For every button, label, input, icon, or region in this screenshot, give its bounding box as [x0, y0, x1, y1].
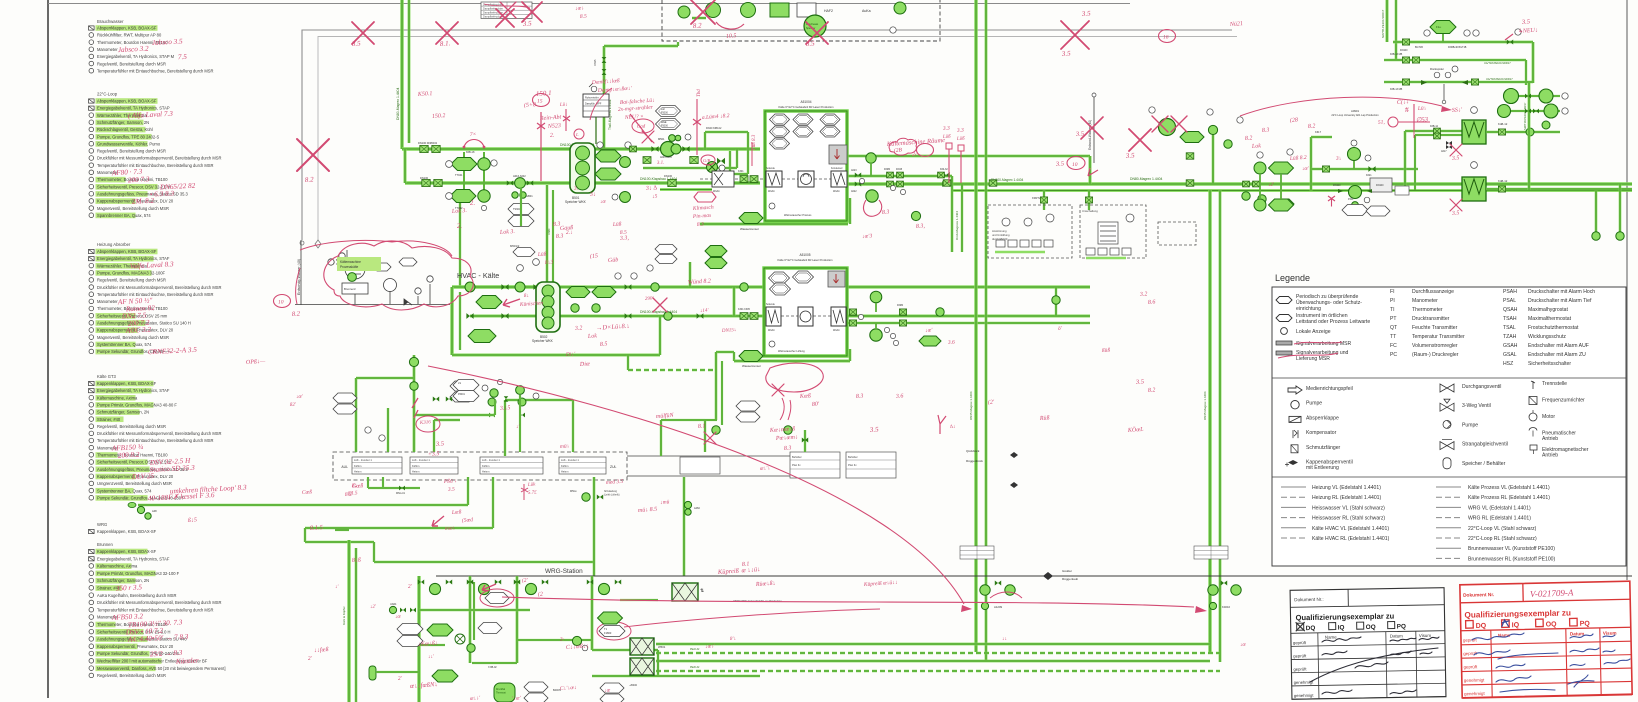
svg-text:Solende: Solende — [766, 167, 775, 170]
svg-text:3.5: 3.5 — [1125, 151, 1136, 160]
pump hexagons TT041/TT042 — [463, 152, 465, 196]
bottom return runs (4 lines) — [656, 643, 1210, 646]
pump P501 on header2 — [515, 178, 526, 189]
svg-text:200 8.2: 200 8.2 — [118, 451, 140, 460]
svg-text:QT: QT — [1390, 325, 1397, 331]
WRG station symbols — [429, 583, 440, 594]
valve boxes on headers — [420, 145, 428, 152]
svg-text:Dokument Nr.: Dokument Nr. — [1463, 592, 1494, 599]
svg-text:Lü↓: Lü↓ — [1417, 105, 1427, 112]
svg-text:8.3: 8.3 — [697, 222, 705, 228]
svg-text:PE22-32: PE22-32 — [690, 648, 700, 651]
pumps on HVAC line — [476, 296, 502, 309]
svg-text:Druckschalter mit Alarm Hoch: Druckschalter mit Alarm Hoch — [1528, 289, 1595, 295]
svg-text:15: 15 — [537, 98, 543, 104]
svg-text:2.: 2. — [550, 133, 555, 139]
svg-text:Speicher WKK: Speicher WKK — [565, 200, 587, 204]
svg-text:NW/TB-PE100-SDR17: NW/TB-PE100-SDR17 — [1381, 9, 1385, 38]
svg-text:3.1.: 3.1. — [657, 160, 665, 166]
red markup crosses — [352, 22, 374, 44]
svg-text:Temperaturfühler mit Eintauchb: Temperaturfühler mit Eintauchbuchse, Ber… — [97, 163, 214, 168]
svg-text:Name: Name — [1325, 635, 1337, 640]
svg-text:3.5: 3.5 — [1081, 9, 1092, 18]
svg-text:DN100: DN100 — [1376, 184, 1384, 187]
svg-text:Diœ: Diœ — [579, 361, 590, 368]
svg-text:3.3: 3.3 — [956, 128, 965, 135]
right edge pipes — [1595, 191, 1598, 241]
svg-text:Tbd: Tbd — [697, 89, 702, 97]
svg-text:Dampfbefeuchter: Dampfbefeuchter — [483, 6, 503, 10]
svg-text:↓œ′: ↓œ′ — [1302, 166, 1310, 172]
svg-text:200 7.3: 200 7.3 — [128, 175, 150, 184]
svg-text:BGT1B: BGT1B — [1415, 46, 1423, 49]
svg-text:↓œ↓′: ↓œ↓′ — [705, 643, 717, 650]
bottom WRG cluster pipes — [417, 576, 420, 702]
svg-text:8↓ß: 8↓ß — [352, 556, 361, 564]
WRG station header line — [436, 575, 1632, 577]
svg-text:WüA4: WüA4 — [713, 190, 720, 193]
svg-text:A48: A48 — [152, 509, 157, 513]
svg-text:Antrieb: Antrieb — [1542, 436, 1558, 442]
svg-text:Heisswasser RL (Stahl schwarz): Heisswasser RL (Stahl schwarz) — [1312, 516, 1385, 522]
svg-text:UA/T18-PE100-SDR17: UA/T18-PE100-SDR17 — [1484, 61, 1511, 65]
svg-text:DN100 DN80/32: DN100 DN80/32 — [418, 141, 438, 145]
svg-text:AuKa: AuKa — [862, 9, 871, 13]
svg-text:(28: (28 — [1290, 116, 1298, 124]
svg-text:DN100-Magrex 1.4404: DN100-Magrex 1.4404 — [991, 178, 1023, 182]
svg-text:Visum: Visum — [1419, 633, 1432, 638]
svg-text:Heizung RL (Edelstahl 1.4401): Heizung RL (Edelstahl 1.4401) — [1312, 495, 1381, 501]
svg-text:Kälte GT3: Kälte GT3 — [97, 374, 117, 379]
svg-text:Qualifizierungsexemplar zu: Qualifizierungsexemplar zu — [1295, 612, 1394, 623]
svg-text:Lok: Lok — [1251, 143, 1262, 150]
svg-text:2.: 2. — [470, 199, 476, 207]
svg-text:Kühlm: Kühlm — [482, 464, 489, 468]
svg-text:PE20-32: PE20-32 — [690, 666, 700, 669]
white hexagon stacks bottom — [524, 682, 548, 692]
svg-text:Temperatur Transmitter: Temperatur Transmitter — [1412, 334, 1465, 340]
svg-text:Kühlm: Kühlm — [354, 464, 361, 468]
svg-text:DN100: DN100 — [1333, 184, 1341, 187]
svg-text:8′↓: 8′↓ — [730, 637, 736, 642]
svg-text:Umgrenzventil, Bereitstellung: Umgrenzventil, Bereitstellung durch MSR — [97, 481, 172, 486]
svg-text:Lüß: Lüß — [956, 136, 966, 142]
svg-text:Pumpe: Pumpe — [1306, 401, 1322, 407]
svg-text:A023: A023 — [851, 169, 857, 172]
svg-text:Heisswasser VL (Stahl schwarz): Heisswasser VL (Stahl schwarz) — [1312, 505, 1385, 511]
svg-text:OQ: OQ — [1366, 624, 1376, 631]
svg-text:Kondensor: Kondensor — [831, 167, 843, 170]
svg-text:K301 K305: K301 K305 — [738, 308, 751, 311]
red marks steam cluster — [563, 109, 570, 131]
svg-text:Sicherheitsschalter: Sicherheitsschalter — [1528, 361, 1571, 367]
svg-text:X 8B-02: X 8B-02 — [488, 666, 497, 669]
svg-text:Druckfühler mit Messumformabsp: Druckfühler mit Messumformabsperrventil,… — [97, 285, 221, 290]
svg-text:œ↓↓′: œ↓↓′ — [470, 695, 482, 702]
svg-text:Legende: Legende — [1275, 273, 1310, 283]
svg-text:8.5: 8.5 — [620, 230, 628, 236]
svg-text:PQ: PQ — [1580, 621, 1591, 628]
svg-text:22°C-Loop: 22°C-Loop — [97, 92, 118, 97]
svg-text:K301: K301 — [738, 170, 744, 173]
green highlighted label Kaeltemaschine Prozesskaelte — [337, 257, 381, 271]
svg-text:A0901: A0901 — [1351, 109, 1360, 113]
svg-text:Systemtrenner BA, Quax, 574: Systemtrenner BA, Quax, 574 — [97, 342, 152, 347]
svg-text:↓œ: ↓œ — [600, 200, 607, 205]
svg-text:Pßü ↓: Pßü ↓ — [443, 477, 458, 485]
main header pipe (long) — [405, 181, 760, 184]
svg-text:L: L — [575, 132, 579, 137]
svg-text:M501: M501 — [658, 137, 665, 141]
svg-text:Prozesskälte: Prozesskälte — [340, 265, 358, 269]
riser pair below box2 — [715, 352, 718, 420]
svg-text:8.5: 8.5 — [352, 39, 362, 48]
svg-text:DN65 Magrex 1.4404: DN65 Magrex 1.4404 — [969, 391, 973, 420]
svg-text:80′: 80′ — [812, 401, 820, 408]
svg-text:Datum: Datum — [1570, 631, 1584, 636]
svg-text:Absperrklappen, KSB, BOAX-SF: Absperrklappen, KSB, BOAX-SF — [97, 249, 157, 254]
svg-text:DN65 Magrex 1.4404: DN65 Magrex 1.4404 — [1203, 391, 1207, 420]
svg-text:WRG-Station: WRG-Station — [545, 568, 583, 575]
svg-text:8.3: 8.3 — [556, 233, 564, 240]
top-right piping cluster — [1386, 0, 1389, 42]
svg-text:Rüggenbück: Rüggenbück — [966, 459, 983, 463]
svg-text:A022: A022 — [851, 190, 857, 193]
svg-text:Brunnenwasser VL (Kunststoff P: Brunnenwasser VL (Kunststoff PE100) — [1468, 546, 1555, 552]
svg-text:G/B: G/B — [703, 158, 711, 163]
svg-text:Lüß: Lüß — [537, 250, 547, 258]
svg-text:A1209: A1209 — [994, 605, 1003, 609]
svg-text:genehmigt: genehmigt — [1464, 677, 1485, 682]
svg-text:3.5: 3.5 — [1135, 378, 1145, 386]
svg-text:Kältemaschine: Kältemaschine — [340, 260, 361, 264]
svg-text:LüK - Inverter 1: LüK - Inverter 1 — [561, 458, 579, 462]
svg-text:3.5: 3.5 — [435, 440, 445, 448]
connector upper to main — [1089, 156, 1092, 184]
svg-text:3↓: 3↓ — [589, 192, 596, 198]
svg-text:Endschalter mit Alarm ZU: Endschalter mit Alarm ZU — [1528, 352, 1586, 358]
svg-text:GB01: GB01 — [526, 194, 533, 198]
svg-text:TT041: TT041 — [455, 173, 463, 177]
svg-text:Lœß: Lœß — [451, 508, 462, 516]
red arc TX on header1 — [464, 140, 484, 148]
valve boxes at box1 left edge — [740, 176, 748, 183]
red valve mark on header — [1328, 196, 1335, 207]
loop riser pair left (x975) — [974, 0, 977, 652]
svg-text:Kälte HVAC VL (Edelstahl 1.440: Kälte HVAC VL (Edelstahl 1.4401) — [1312, 526, 1389, 532]
svg-text:WüA4: WüA4 — [833, 190, 840, 193]
svg-text:8.2: 8.2 — [292, 310, 301, 318]
svg-text:PT: PT — [1390, 316, 1397, 322]
svg-text:Frostschutzthermostat: Frostschutzthermostat — [1528, 325, 1579, 331]
svg-text:Heizm: Heizm — [561, 470, 568, 474]
svg-text:Lüß 8.2: Lüß 8.2 — [1289, 154, 1308, 162]
svg-text:↓Kœ↓ß↓: ↓Kœ↓ß↓ — [418, 640, 438, 648]
svg-text:Lüß: Lüß — [612, 220, 622, 228]
left component list — [89, 19, 248, 678]
svg-text:Lü↓: Lü↓ — [559, 102, 568, 108]
buffer tank B502 — [536, 282, 560, 332]
svg-text:DN100: DN100 — [420, 176, 429, 180]
svg-text:3.: 3. — [573, 186, 579, 192]
svg-text:↓œ: ↓œ — [604, 688, 611, 694]
svg-text:W501: W501 — [658, 645, 666, 649]
svg-text:A617: A617 — [1441, 150, 1447, 153]
svg-text:DLV 25: DLV 25 — [131, 472, 155, 481]
svg-text:A51004: A51004 — [801, 100, 812, 104]
svg-text:Solende: Solende — [766, 303, 775, 306]
svg-text:Kälte Prozess VL (Edelstahl 1.: Kälte Prozess VL (Edelstahl 1.4401) — [1468, 485, 1550, 491]
svg-text:3.5: 3.5 — [1055, 160, 1065, 168]
dashed control box A — [988, 205, 1196, 258]
svg-text:PSAH: PSAH — [1503, 289, 1517, 295]
heat-exchanger boxes right — [1462, 120, 1486, 144]
small tank green — [494, 683, 515, 702]
svg-text:C↓′↓œ↓: C↓′↓œ↓ — [560, 685, 577, 692]
svg-text:Absperrklappen, KSB, BOAX-SF: Absperrklappen, KSB, BOAX-SF — [97, 26, 157, 31]
svg-text:WRG VL (Edelstahl 1.4401): WRG VL (Edelstahl 1.4401) — [1468, 505, 1531, 511]
svg-text:8.3: 8.3 — [882, 209, 890, 216]
svg-text:Gœß: Gœß — [352, 482, 364, 490]
svg-text:3.6: 3.6 — [947, 340, 956, 347]
svg-text:K617: K617 — [1315, 130, 1322, 134]
machine row in box1 — [700, 178, 831, 180]
svg-text:MSG-01: MSG-01 — [396, 492, 406, 495]
svg-text:TSAL: TSAL — [1503, 325, 1516, 331]
svg-text:mülfüN: mülfüN — [656, 412, 675, 420]
svg-text:7×: 7× — [470, 132, 477, 138]
svg-text:Kälte HVAC RL (Edelstahl 1.440: Kälte HVAC RL (Edelstahl 1.4401) — [1312, 536, 1390, 542]
mid air-handling band — [333, 452, 795, 480]
svg-text:Brunnen: Brunnen — [97, 542, 114, 547]
svg-text:Regelventil, Bereitstellung du: Regelventil, Bereitstellung durch MSR — [97, 61, 166, 66]
symbols in top dashed box — [706, 3, 721, 18]
svg-text:Heizm: Heizm — [412, 470, 419, 474]
svg-text:3.5: 3.5 — [1521, 18, 1531, 26]
svg-text:Kühlm: Kühlm — [412, 464, 419, 468]
page border top line — [48, 3, 1130, 5]
svg-text:Lüß 8.3: Lüß 8.3 — [752, 134, 757, 151]
svg-text:Medienrichtungspfeil: Medienrichtungspfeil — [1306, 386, 1353, 392]
svg-text:16: 16 — [1163, 34, 1169, 40]
svg-text:TS601: TS601 — [513, 208, 521, 211]
process box 1: Kaelte 6/12C laser production — [765, 111, 847, 221]
svg-text:Nü21: Nü21 — [1229, 21, 1243, 28]
svg-text:↓œ: ↓œ — [395, 615, 402, 620]
svg-text:8↓3: 8↓3 — [545, 259, 554, 266]
svg-text:Heizm: Heizm — [354, 470, 361, 474]
svg-text:N523: N523 — [547, 123, 561, 130]
svg-text:3.5: 3.5 — [447, 487, 456, 494]
svg-text:Überwachungs- oder Schutz-: Überwachungs- oder Schutz- — [1296, 299, 1362, 306]
qualification stamp left (black) — [1290, 588, 1446, 700]
svg-text:F1••: F1•• — [1436, 25, 1441, 29]
svg-text:A460: A460 — [694, 507, 700, 510]
svg-text:ß2′: ß2′ — [289, 403, 297, 409]
svg-text:3.5: 3.5 — [1451, 155, 1460, 162]
svg-text:NW/T18-PE100-SDR17: NW/T18-PE100-SDR17 — [1523, 102, 1527, 130]
revision table top — [481, 2, 532, 19]
svg-text:(15: (15 — [590, 252, 598, 260]
svg-text:Druckfühler mit Messumformabsp: Druckfühler mit Messumformabsperrventil,… — [97, 600, 221, 605]
svg-text:F1803: F1803 — [604, 631, 612, 635]
svg-text:LüK - Inverter 1: LüK - Inverter 1 — [354, 458, 372, 462]
svg-text:2.↓: 2.↓ — [566, 230, 574, 236]
svg-text:DN80: DN80 — [884, 168, 891, 171]
svg-text:Kältemaschine, Axima: Kältemaschine, Axima — [97, 564, 138, 569]
svg-text:genehmigt: genehmigt — [1464, 691, 1485, 696]
svg-text:Regelventil, Bereitstellung du: Regelventil, Bereitstellung durch MSR — [97, 278, 166, 283]
svg-text:Heizm: Heizm — [482, 470, 489, 474]
svg-text:PC: PC — [1390, 352, 1397, 358]
svg-text:KüB-12: KüB-12 — [1498, 179, 1508, 183]
svg-text:Cad: Cad — [637, 124, 646, 130]
svg-text:8.1: 8.1 — [698, 423, 706, 430]
WRG feed drops — [593, 477, 596, 576]
svg-text:und Umlüftung: und Umlüftung — [992, 233, 1010, 237]
svg-text:Temperaturfühler mit Eintauchb: Temperaturfühler mit Eintauchbuchse, Ber… — [97, 68, 214, 73]
line y42 — [1393, 41, 1533, 44]
svg-text:(2B: (2B — [894, 146, 903, 154]
svg-text:K4610: K4610 — [1222, 605, 1231, 609]
red arrows small — [482, 584, 496, 591]
handwriting right stamp (blue) — [1472, 633, 1630, 692]
symbols right of box1 — [855, 172, 861, 177]
svg-text:Pumpe Primär, Grundfos, MAGNA3: Pumpe Primär, Grundfos, MAGNA3 40-80 F — [97, 402, 177, 407]
svg-text:Grundwasserventile, Köhler, Pu: Grundwasserventile, Köhler, Pumo — [97, 141, 161, 146]
svg-text:Datum: Datum — [1390, 633, 1403, 638]
svg-text:Wasserzensor: Wasserzensor — [742, 364, 761, 368]
svg-text:8.2: 8.2 — [1245, 135, 1253, 142]
HVAC supply drop before box2 — [733, 287, 736, 316]
svg-text:TSAH: TSAH — [1503, 316, 1517, 322]
HVAC branch risers — [689, 262, 692, 287]
svg-text:genehmigt: genehmigt — [1294, 693, 1314, 698]
svg-text:Schmutzfänger: Schmutzfänger — [1306, 445, 1341, 451]
svg-text:Druckschalter mit Alarm Tief: Druckschalter mit Alarm Tief — [1528, 298, 1592, 304]
svg-text:geprüft: geprüft — [1293, 653, 1307, 658]
svg-text:10.5: 10.5 — [726, 33, 737, 40]
instruments mid header — [595, 150, 621, 162]
hexagon flow meter — [1430, 21, 1456, 34]
svg-text:2.: 2. — [457, 222, 463, 230]
svg-text:F5000: F5000 — [661, 112, 668, 115]
svg-text:7.5: 7.5 — [178, 53, 188, 61]
svg-text:Schmutzfänger, Samson, 2N: Schmutzfänger, Samson, 2N — [97, 410, 149, 415]
svg-text:Kappenklappen, KSB, BOAX-SF: Kappenklappen, KSB, BOAX-SF — [97, 529, 157, 534]
svg-text:∆↓: ∆↓ — [950, 424, 956, 430]
svg-text:M5Gx: M5Gx — [570, 490, 577, 493]
svg-text:Wasserzensor: Wasserzensor — [740, 227, 759, 231]
loop riser pair right (x1210) — [1208, 190, 1211, 652]
svg-text:IQ: IQ — [1512, 622, 1520, 629]
svg-text:KüB-12: KüB-12 — [1498, 122, 1508, 126]
svg-text:8.5: 8.5 — [806, 39, 816, 48]
svg-text:WüA4: WüA4 — [833, 329, 840, 332]
svg-text:Temperaturfühler mit Eintauchb: Temperaturfühler mit Eintauchbuchse, Ber… — [97, 438, 214, 443]
svg-text:LS: LS — [458, 382, 461, 385]
svg-text:Druckfühler mit Messumformabsp: Druckfühler mit Messumformabsperrventil,… — [97, 156, 221, 161]
left bottom riser pair — [347, 540, 350, 702]
svg-text:Manometer: Manometer — [97, 299, 118, 304]
svg-text:TZAH: TZAH — [1503, 334, 1517, 340]
svg-text:Frequenzumrichter: Frequenzumrichter — [1542, 398, 1585, 404]
svg-text:WüA4: WüA4 — [768, 190, 775, 193]
svg-text:8.2: 8.2 — [1308, 123, 1316, 130]
svg-text:HAF2: HAF2 — [824, 9, 833, 13]
bottom loop of box2 — [716, 351, 734, 353]
svg-text:Manometer: Manometer — [97, 47, 118, 52]
red vertical strokes near K316 — [412, 398, 418, 418]
red X at Erdsond — [1081, 117, 1103, 139]
red loop at 913,190 — [864, 200, 882, 216]
svg-text:8.2: 8.2 — [1148, 387, 1156, 394]
page border left vertical line — [47, 0, 49, 698]
svg-text:290′: 290′ — [645, 296, 655, 302]
svg-text:K6B-13 MB: K6B-13 MB — [1390, 88, 1403, 91]
svg-text:3›: 3› — [559, 637, 565, 643]
svg-text:8.2: 8.2 — [305, 175, 315, 184]
svg-text:M501/2: M501/2 — [510, 244, 520, 248]
svg-text:Jabsco 3.2: Jabsco 3.2 — [118, 45, 150, 55]
svg-text:DN15: DN15 — [896, 168, 903, 171]
svg-text:K50.1: K50.1 — [417, 91, 433, 98]
svg-text:Maximalhygrostat: Maximalhygrostat — [1528, 307, 1568, 313]
svg-text:OQ: OQ — [1546, 621, 1558, 628]
svg-text:Kappenabsperrventil, Pneumatex: Kappenabsperrventil, Pneumatex, DLV 20 — [97, 644, 174, 649]
svg-text:Volumenstromregler: Volumenstromregler — [1412, 343, 1458, 349]
svg-text:↓mü: ↓mü — [660, 499, 670, 506]
svg-text:med 3.5: med 3.5 — [606, 479, 624, 486]
svg-text:geprüft: geprüft — [1464, 664, 1479, 669]
svg-text:Künzler: Künzler — [175, 657, 199, 666]
dashed enclosure top — [662, 0, 940, 41]
svg-text:Wicklungsschutz: Wicklungsschutz — [1528, 334, 1566, 340]
svg-text:FC: FC — [1390, 343, 1397, 349]
svg-text:8.2: 8.2 — [345, 492, 353, 498]
svg-text:Cœß: Cœß — [302, 488, 313, 496]
svg-text:Magnetventil, Bereitstellung d: Magnetventil, Bereitstellung durch MSR — [97, 206, 169, 211]
svg-text:AUL: AUL — [341, 465, 348, 469]
svg-text:Pumpe: Pumpe — [1462, 422, 1478, 428]
svg-text:↓14′: ↓14′ — [700, 308, 710, 314]
svg-text:+3.5: +3.5 — [428, 451, 440, 458]
svg-text:Rohrverteiler: Rohrverteiler — [585, 97, 599, 100]
filter circles rows — [1511, 95, 1560, 97]
svg-text:Leitstand oder Prozess Leitwar: Leitstand oder Prozess Leitwarte — [1296, 319, 1370, 325]
svg-text:HSZ: HSZ — [1503, 361, 1513, 367]
svg-text:Temperaturfühler mit Eintauchb: Temperaturfühler mit Eintauchbuchse, Ber… — [97, 292, 214, 297]
red arcs long — [428, 366, 964, 604]
svg-text:Jabsco 3.5: Jabsco 3.5 — [152, 37, 184, 47]
svg-text:8.5: 8.5 — [580, 14, 588, 20]
svg-text:WRG: WRG — [97, 522, 107, 527]
external machine box left of box1 — [712, 171, 734, 187]
svg-text:OPß↓—: OPß↓— — [246, 358, 266, 366]
svg-text:Kältemaschine, Axima: Kältemaschine, Axima — [97, 395, 138, 400]
svg-text:8.1.: 8.1. — [440, 39, 451, 48]
red drop line with valve N523 — [540, 112, 542, 181]
svg-text:Maximalthermostat: Maximalthermostat — [1528, 316, 1572, 322]
svg-text:Signalverarbeitung MSR: Signalverarbeitung MSR — [1296, 341, 1352, 347]
svg-text:œ↓′↓: œ↓′↓ — [760, 465, 771, 472]
inner frame line B — [318, 37, 1237, 241]
svg-text:Dokument Nr.:: Dokument Nr.: — [1294, 597, 1323, 603]
bottom loop of box1 — [700, 223, 848, 226]
svg-text:Endschalter mit Alarm AUF: Endschalter mit Alarm AUF — [1528, 343, 1589, 349]
svg-text:Kappenklappen, KSB, BOAX-SF: Kappenklappen, KSB, BOAX-SF — [97, 381, 157, 386]
svg-text:Absperrklappe: Absperrklappe — [1306, 415, 1339, 421]
